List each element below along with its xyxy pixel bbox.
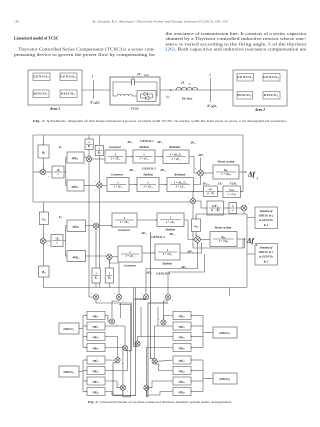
mid summer (122.9,387.7) <box>120 385 125 390</box>
wire tie power to a12 right <box>196 214 244 219</box>
R4 droop block <box>105 268 113 283</box>
contract demand line up to governor summer 1 <box>89 162 93 297</box>
svg-text:1 + sTₒ₂: 1 + sTₒ₂ <box>176 185 185 189</box>
controller K1 block <box>46 171 52 173</box>
wire demand box2 to vertical <box>247 253 255 255</box>
wire a12 right to power summer 2 <box>195 232 197 236</box>
svg-text:Turbine: Turbine <box>143 172 154 176</box>
svg-text:ΔP⁸₂: ΔP⁸₂ <box>186 250 193 254</box>
cpf24 block <box>173 367 191 375</box>
svg-text:(1 − K̅): (1 − K̅) <box>211 208 220 212</box>
wire corridor extra 1 <box>140 307 142 337</box>
svg-text:DISCO2: DISCO2 <box>60 92 76 97</box>
tie output summer <box>237 207 242 209</box>
governor 1 block <box>92 158 105 160</box>
TCSC box <box>110 77 160 105</box>
svg-text:ΔPₑ₁: ΔPₑ₁ <box>126 140 133 144</box>
turbine 1 block <box>126 156 133 158</box>
cpf34 block <box>173 377 191 385</box>
wire B2 to ACE2 <box>43 244 45 266</box>
wire corridor extra 3 <box>120 303 122 318</box>
svg-text:+: + <box>195 167 197 170</box>
svg-text:−: − <box>100 220 102 223</box>
svg-text:[26]. Both capacitive and indu: [26]. Both capacitive and inductive reac… <box>166 47 307 52</box>
mesh output verticals <box>112 300 119 319</box>
svg-text:+: + <box>248 202 250 205</box>
thyristor T2 <box>145 96 149 100</box>
svg-text:+: + <box>91 229 93 232</box>
svg-text:−: − <box>249 211 251 214</box>
DISCO1 box <box>33 90 49 98</box>
cpf11 block <box>87 312 105 320</box>
R3 droop block <box>92 268 100 283</box>
thyristor T1 <box>144 92 148 96</box>
svg-text:DISCO4: DISCO4 <box>218 377 229 382</box>
Area-2 box <box>233 70 287 106</box>
svg-text:DISCOs in 1: DISCOs in 1 <box>258 251 274 254</box>
svg-text:+: + <box>158 318 160 321</box>
demand box 1 (DISCOs area2 to GENCOs area1) <box>255 207 278 229</box>
GENCO3 box <box>237 74 254 82</box>
svg-text:1 + sTₚ₁: 1 + sTₚ₁ <box>221 172 231 176</box>
svg-text:1 + sTₑ₄: 1 + sTₑ₄ <box>125 254 134 258</box>
svg-text:R₁: R₁ <box>88 144 91 148</box>
svg-text:ΔP⁸₁: ΔP⁸₁ <box>197 153 204 157</box>
ACE2 summer <box>40 238 45 243</box>
DISCO4 box <box>213 373 237 384</box>
turbine 3 block <box>137 219 157 221</box>
svg-text:+: + <box>48 244 50 247</box>
mid summer (146.4,387.7) <box>144 385 149 390</box>
power system 2 block <box>200 239 210 241</box>
wire TCSC output with current arrow i12 <box>160 89 233 91</box>
svg-text:(1 − K̅): (1 − K̅) <box>207 192 214 195</box>
svg-text:Demand of: Demand of <box>259 246 274 249</box>
svg-text:−: − <box>188 204 190 207</box>
svg-text:Governor: Governor <box>109 145 122 149</box>
svg-text:+: + <box>100 299 102 302</box>
wire feedback f2 to B2 <box>43 277 45 288</box>
svg-text:pensating device to govern the: pensating device to govern the power flo… <box>14 52 156 57</box>
svg-text:Tie-Line: Tie-Line <box>182 97 193 101</box>
mesh wires right <box>163 316 173 320</box>
svg-text:Governor: Governor <box>111 172 124 176</box>
wire demand box1 to vertical <box>247 217 255 219</box>
contract summer row S3 <box>143 294 148 299</box>
wire tie error down and to demand boxes <box>244 211 247 288</box>
svg-text:1 + sTₐ₄: 1 + sTₐ₄ <box>163 252 172 256</box>
GENCO1 box <box>33 73 50 81</box>
turbine 4 block <box>142 252 155 254</box>
svg-text:1 + sTₑ₃: 1 + sTₑ₃ <box>120 220 129 224</box>
svg-text:−K̇₁: −K̇₁ <box>56 168 61 172</box>
svg-text:+: + <box>94 180 96 183</box>
cpf41 block <box>87 344 105 352</box>
svg-text:1: 1 <box>92 75 94 79</box>
svg-text:Area-1: Area-1 <box>49 107 60 111</box>
svg-text:DISCO4: DISCO4 <box>263 93 279 98</box>
svg-text:1 + sTₚ₂: 1 + sTₚ₂ <box>219 239 229 243</box>
cpf31 block <box>87 333 105 341</box>
svg-text:+: + <box>112 355 114 358</box>
svg-text:GENCO1: GENCO1 <box>33 75 49 80</box>
svg-text:ΔPₑ₃: ΔPₑ₃ <box>140 231 147 235</box>
svg-text:Governor: Governor <box>124 263 137 267</box>
B2 block <box>39 266 50 277</box>
output delta f1 <box>239 171 247 173</box>
svg-text:GENCO2: GENCO2 <box>60 75 76 80</box>
svg-text:+: + <box>48 175 50 178</box>
cpf42 block <box>87 388 105 396</box>
mesh wires left <box>105 316 109 322</box>
svg-text:DISCO2: DISCO2 <box>62 370 73 375</box>
mid summer (154.6,361.3) <box>152 359 157 364</box>
wire DISCO3 bracket <box>203 332 213 334</box>
svg-text:12: 12 <box>189 84 191 86</box>
wire delta-f2 into tie summer from below <box>193 204 245 249</box>
svg-text:Thyristor Controlled Series Co: Thyristor Controlled Series Compensator … <box>18 47 156 52</box>
wire DISCO1 bracket <box>79 328 83 330</box>
svg-text:ΔPₑ₂: ΔPₑ₂ <box>128 168 135 172</box>
svg-text:+: + <box>123 299 125 302</box>
svg-text:Δf: Δf <box>247 171 256 179</box>
output delta f2 <box>237 238 246 240</box>
svg-text:jX: jX <box>180 81 185 85</box>
controller K2 block <box>46 240 51 242</box>
svg-text:+: + <box>150 390 152 393</box>
svg-text:DISCO3: DISCO3 <box>236 93 252 98</box>
GENCO2 box <box>60 73 77 81</box>
svg-text:Power system: Power system <box>215 226 232 230</box>
svg-text:Reheater: Reheater <box>174 172 186 176</box>
delta f2 feedback line <box>44 287 248 289</box>
wire turbine3 to power summer 2 <box>184 220 194 240</box>
mid summer (112,321.5) <box>109 319 114 324</box>
wire delta-f1 up to top line <box>242 135 244 172</box>
mid summer (125,347.8) <box>122 345 127 350</box>
svg-text:+: + <box>172 299 174 302</box>
governor summer 1 <box>84 157 86 159</box>
svg-text:the reactance of transmission: the reactance of transmission line. It c… <box>166 31 308 36</box>
wire B1 to ACE1 summer <box>43 158 45 169</box>
a12 block right <box>192 219 201 232</box>
tie-line inductor <box>176 87 198 90</box>
apf12 block <box>67 180 84 191</box>
wire a12 left to ACE2 summer <box>43 225 45 238</box>
svg-text:i12: i12 <box>167 95 170 100</box>
svg-text:Kₚ₁: Kₚ₁ <box>223 168 228 172</box>
svg-text:138: 138 <box>14 20 19 24</box>
svg-text:GENCO3: GENCO3 <box>237 75 253 80</box>
svg-text:1 + sT̅ₑ₁: 1 + sT̅ₑ₁ <box>111 157 120 161</box>
contract summer row S4 <box>165 294 170 299</box>
svg-text:Turbine: Turbine <box>139 145 150 149</box>
ACE1 summer <box>40 169 45 174</box>
contract summer row S1 <box>93 294 98 299</box>
wire S2 up to governor summer 4 <box>109 260 119 295</box>
svg-text:Linearized model of TCSC: Linearized model of TCSC <box>14 37 59 41</box>
cpf33 block <box>173 333 191 341</box>
node 2 <box>210 78 212 102</box>
a12 block left <box>43 202 45 212</box>
svg-text:DISCOs in 2: DISCOs in 2 <box>258 215 274 218</box>
wire TCSC arrow from label <box>132 77 134 80</box>
TCSC inductor-thyristor branch <box>113 90 117 96</box>
svg-text:+: + <box>91 292 93 295</box>
svg-text:ΔPₐ₂: ΔPₐ₂ <box>159 168 166 172</box>
wire delta-f1 line to tie summer <box>33 201 190 203</box>
svg-text:1 + sTₐ₁: 1 + sTₐ₁ <box>139 157 148 161</box>
cpf14 block <box>173 356 191 364</box>
svg-text:Δf: Δf <box>246 237 255 245</box>
governor 4 block <box>112 256 118 258</box>
svg-text:+: + <box>118 383 120 386</box>
svg-text:ΔPₒ₁: ΔPₒ₁ <box>189 141 196 145</box>
svg-text:GENCO-3: GENCO-3 <box>151 235 165 239</box>
svg-text:1: 1 <box>257 177 259 181</box>
turbine 2 block <box>129 184 137 186</box>
demand box 2 (DISCOs area1 to GENCOs area2) <box>255 244 278 266</box>
svg-text:TCSC: TCSC <box>230 182 237 185</box>
wire DISCO4 bracket <box>203 378 213 380</box>
cpf44 block <box>173 388 191 396</box>
R2 droop block <box>98 135 100 145</box>
svg-text:+: + <box>84 154 86 157</box>
svg-text:2: 2 <box>209 73 211 77</box>
svg-text:1 + sTₛₚₚ: 1 + sTₛₚₚ <box>227 194 237 196</box>
svg-text:Power system: Power system <box>218 159 235 163</box>
svg-text:+: + <box>120 343 122 346</box>
reheater 2 block <box>159 184 167 186</box>
svg-text:+: + <box>141 292 143 295</box>
svg-text:1 + sTₐ₂: 1 + sTₐ₂ <box>143 185 152 189</box>
svg-text:−: − <box>93 154 95 157</box>
svg-text:+: + <box>114 292 116 295</box>
governor 3 block <box>99 225 112 227</box>
svg-text:+: + <box>195 177 197 180</box>
wire turbine4 to power summer 2 <box>180 243 202 253</box>
wire corridor extra 2 <box>157 307 159 326</box>
apf11 block <box>67 152 84 163</box>
wire R2 to governor summer 2 <box>98 156 100 183</box>
svg-text:R₄: R₄ <box>108 276 111 280</box>
svg-text:GENCO-2: GENCO-2 <box>142 167 156 171</box>
wire delta-f1 down to TCSC <box>240 172 243 192</box>
svg-text:Reheater: Reheater <box>169 145 181 149</box>
wire thyristor box to right rail <box>156 90 157 96</box>
svg-text:1 + sTₐ₃: 1 + sTₐ₃ <box>166 220 175 224</box>
svg-text:DISCO1: DISCO1 <box>62 327 73 332</box>
svg-text:+: + <box>91 220 93 223</box>
svg-text:Fig. 2. Linearized model of an: Fig. 2. Linearized model of an interconn… <box>88 400 232 404</box>
cpf13 block <box>173 312 191 320</box>
svg-text:in 1: in 1 <box>264 224 269 227</box>
wire R3 connections <box>95 283 97 288</box>
svg-text:jX: jX <box>136 72 141 76</box>
svg-text:Area-2: Area-2 <box>254 108 265 112</box>
svg-text:−K̇₂: −K̇₂ <box>55 236 60 240</box>
apf21 block <box>67 220 86 232</box>
svg-text:1 + sTₑ₂: 1 + sTₑ₂ <box>113 185 122 189</box>
wire tie error into ACE1 <box>33 171 40 173</box>
integrator block 1/s <box>224 207 230 209</box>
cpf12 block <box>87 356 105 364</box>
svg-text:+: + <box>159 363 161 366</box>
svg-text:2πT̅₁₂: 2πT̅₁₂ <box>211 204 219 208</box>
svg-text:−: − <box>38 236 40 239</box>
svg-text:1 + sKₒ₁Tₒ₁: 1 + sKₒ₁Tₒ₁ <box>169 153 182 157</box>
svg-text:+: + <box>192 243 194 246</box>
svg-text:R₂: R₂ <box>98 151 101 155</box>
svg-text:Turbine: Turbine <box>162 262 173 266</box>
wire R1 to governor summer 1 <box>88 150 90 157</box>
thyristor pair box <box>137 91 156 102</box>
DISCO1 box <box>59 323 79 334</box>
svg-text:+: + <box>127 390 129 393</box>
governor summer 3 <box>86 225 94 227</box>
svg-text:ΔPₐ₁: ΔPₐ₁ <box>156 140 163 144</box>
long vertical dPL lines <box>133 288 135 300</box>
svg-text:M. Deepak, R.J. Abraham / Elec: M. Deepak, R.J. Abraham / Electrical Pow… <box>91 20 229 25</box>
wire Area-1 to node 1 <box>82 89 110 91</box>
governor 2 block <box>102 184 107 186</box>
svg-text:Kₚ₂: Kₚ₂ <box>220 235 225 239</box>
svg-text:DISCO3: DISCO3 <box>218 331 229 336</box>
DISCO4 box <box>263 92 280 100</box>
contract line below governor summer 2 <box>98 188 100 287</box>
svg-text:R₃: R₃ <box>95 276 98 280</box>
DISCO3 box <box>213 327 237 338</box>
svg-text:|V̅₁|∠δ₁: |V̅₁|∠δ₁ <box>90 99 101 104</box>
svg-text:|V̅₂|∠δ₂: |V̅₂|∠δ₂ <box>207 103 218 108</box>
R1 droop block <box>88 135 90 139</box>
B1 block <box>43 135 45 145</box>
svg-text:GENCO-1: GENCO-1 <box>140 139 154 143</box>
governor summer 4 <box>86 255 107 257</box>
apf22 block <box>67 251 86 262</box>
cpf43 block <box>173 344 191 352</box>
DISCO2 box <box>60 90 77 98</box>
wire delta-f2 down feedback <box>242 239 244 248</box>
wire DISCO2 bracket <box>79 371 83 373</box>
svg-text:Demand of: Demand of <box>259 210 274 213</box>
svg-text:+: + <box>163 292 165 295</box>
svg-text:U₁: U₁ <box>59 145 62 149</box>
svg-text:GENCO4: GENCO4 <box>263 75 279 80</box>
svg-text:Kₛₚₚₚ: Kₛₚₚₚ <box>228 190 235 192</box>
svg-text:+: + <box>105 260 107 263</box>
svg-text:DISCO1: DISCO1 <box>32 92 47 97</box>
wire S4 up toward GENCO4 path <box>168 254 205 294</box>
svg-text:ΔPₐ₃: ΔPₐ₃ <box>168 232 175 236</box>
governor summer 2 <box>84 184 96 186</box>
power system 1 block <box>203 172 213 174</box>
mid summer (117.5,360.1) <box>115 358 120 363</box>
svg-text:−: − <box>202 233 204 236</box>
svg-text:Turbine: Turbine <box>165 227 176 231</box>
TCSC gain block sKc/(1-K) <box>217 191 223 193</box>
tie-line block 2piT12 <box>196 201 208 208</box>
wire R4 connections <box>108 283 110 288</box>
mid summer (163.4,322.5) <box>161 320 166 325</box>
cpf23 block <box>173 322 191 330</box>
svg-text:1 + sTₒ₁: 1 + sTₒ₁ <box>171 157 180 161</box>
power summer 1 <box>189 157 197 174</box>
svg-text:1 + sKₒ₂Tₒ₂: 1 + sKₒ₂Tₒ₂ <box>174 180 187 184</box>
wire U1 distribution <box>64 158 67 173</box>
DISCO2 box <box>59 366 79 377</box>
wire tie error vertical left <box>32 135 34 202</box>
svg-text:TCSC: TCSC <box>144 75 150 77</box>
cpf21 block <box>87 322 105 330</box>
svg-text:TCSC: TCSC <box>131 107 140 111</box>
mid summer (137.5,343.7) <box>135 341 140 346</box>
svg-text:+: + <box>95 189 97 192</box>
wire delta-f1 feedback top line <box>33 134 243 136</box>
node 1 <box>93 80 95 99</box>
svg-text:+: + <box>141 383 143 386</box>
power summer 2 <box>195 237 201 243</box>
svg-text:+: + <box>192 234 194 237</box>
svg-text:+: + <box>104 251 106 254</box>
contract summer row S2 <box>116 294 121 299</box>
svg-text:+: + <box>122 362 124 365</box>
svg-text:+: + <box>84 163 86 166</box>
tie summer <box>191 199 196 204</box>
svg-text:ΔXₛ: ΔXₛ <box>217 182 223 185</box>
wire TCSC path to tie summer <box>193 191 204 198</box>
reheater 1 block <box>155 156 163 158</box>
svg-text:U₂: U₂ <box>59 215 62 219</box>
TCSC capacitor branch <box>113 82 132 90</box>
svg-text:to GENCOs: to GENCOs <box>259 256 273 259</box>
svg-text:to GENCOs: to GENCOs <box>259 219 273 222</box>
svg-text:shunted by a Thyristor control: shunted by a Thyristor controlled induct… <box>166 36 308 41</box>
svg-text:in 2: in 2 <box>264 260 269 263</box>
cpf32 block <box>87 377 105 385</box>
Area-1 box <box>28 70 82 105</box>
wire S3 up to power summer 2 (dPd2) <box>146 243 198 295</box>
wire U2 distribution <box>63 226 67 241</box>
GENCO4 box <box>263 74 280 82</box>
DISCO3 box <box>237 92 253 100</box>
svg-text:Governor: Governor <box>118 228 131 232</box>
svg-text:Fig. 1. Schematic diagram of t: Fig. 1. Schematic diagram of the interco… <box>33 119 287 123</box>
svg-text:−: − <box>205 176 207 179</box>
svg-text:+: + <box>38 168 40 171</box>
svg-text:+: + <box>142 346 144 349</box>
svg-text:+: + <box>188 196 190 199</box>
svg-text:ΔPₐₙ₁₂: ΔPₐₙ₁₂ <box>201 182 209 185</box>
cpf22 block <box>87 367 105 375</box>
